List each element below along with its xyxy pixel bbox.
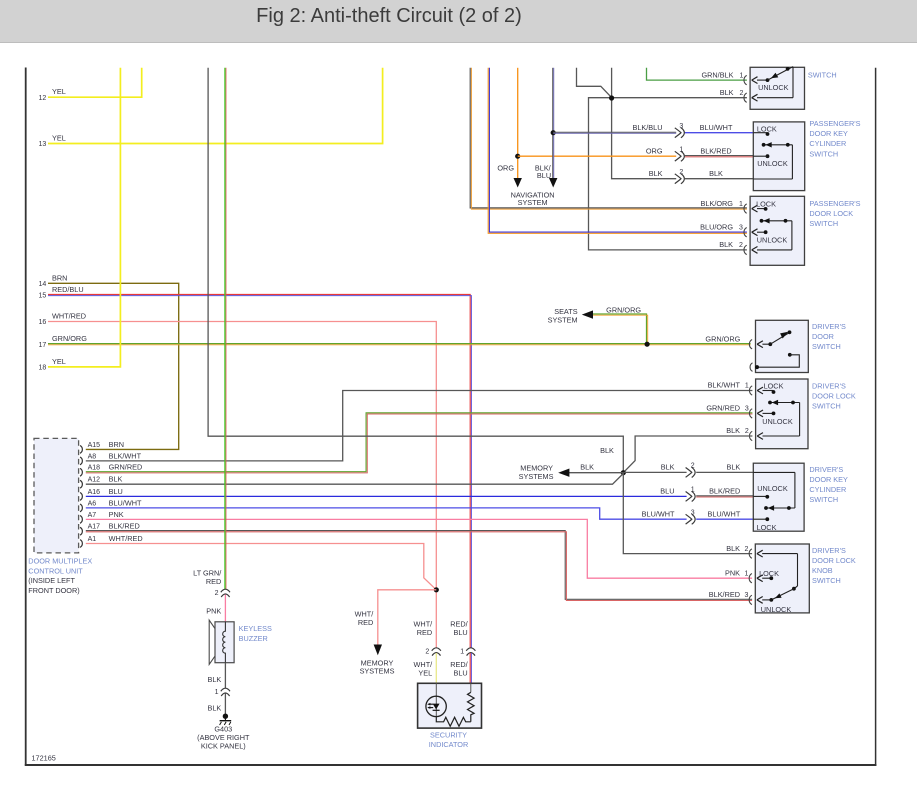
svg-text:YEL: YEL	[52, 87, 66, 96]
wire ORG branch to connector	[518, 155, 677, 157]
pin A8	[80, 451, 142, 465]
wire BLK connector to driver key cylinder switch	[696, 471, 753, 473]
svg-text:DRIVER'S: DRIVER'S	[812, 546, 846, 555]
wire BLK/RED connector to driver key cylinder switch	[696, 496, 753, 497]
switch box PASSENGER'S DOOR KEY CYLINDER SWITCH	[753, 122, 804, 191]
svg-text:SYSTEM: SYSTEM	[518, 198, 548, 207]
wire BLK/ORG to passenger door lock switch pin 1	[470, 68, 747, 209]
svg-text:BLK/WHT: BLK/WHT	[109, 451, 142, 460]
connector driver lock pin 1	[749, 386, 773, 395]
label BLK/ORG pin 1	[701, 199, 743, 208]
svg-text:YEL: YEL	[52, 357, 66, 366]
svg-text:DOOR LOCK: DOOR LOCK	[812, 556, 856, 565]
svg-text:SWITCH: SWITCH	[809, 149, 838, 158]
svg-text:BLK: BLK	[726, 544, 740, 553]
pin A15	[80, 440, 124, 454]
svg-text:2: 2	[679, 169, 683, 176]
label PNK pin 1 knob	[725, 568, 748, 577]
label BLK above node	[600, 446, 614, 455]
label BLK buzzer	[208, 675, 222, 684]
connector vertical 1 RED/BLU	[460, 648, 475, 656]
frame left border	[25, 68, 27, 766]
wire BLU/ORG to passenger door lock switch pin 3	[488, 68, 747, 234]
label PASSENGER'S DOOR KEY CYLINDER SWITCH	[809, 119, 860, 158]
svg-text:BLK/RED: BLK/RED	[700, 146, 731, 155]
label GRN/ORG seats	[606, 305, 641, 314]
label BLK ground	[208, 704, 222, 713]
wire BLU A16 to driver key cylinder pin 1	[86, 495, 687, 497]
svg-text:GRN/RED: GRN/RED	[706, 404, 740, 413]
svg-text:BLK: BLK	[649, 169, 663, 178]
svg-text:SEATS: SEATS	[554, 307, 578, 316]
wire 17 GRN/ORG	[48, 344, 751, 345]
switch box SWITCH (top)	[750, 67, 804, 109]
label BLK pin 2 row driver key cyl	[661, 463, 741, 472]
wire BLK node to SWITCH pin 2	[612, 97, 747, 99]
svg-text:BLU: BLU	[537, 171, 551, 180]
svg-text:KICK PANEL): KICK PANEL)	[201, 741, 246, 750]
svg-text:KNOB: KNOB	[812, 566, 833, 575]
svg-text:BLU/WHT: BLU/WHT	[707, 509, 740, 518]
switch SWITCH internals	[758, 67, 793, 98]
node BLK junction	[609, 95, 614, 100]
svg-text:BLK: BLK	[719, 240, 733, 249]
svg-text:15: 15	[39, 293, 47, 300]
wire BLK driver lock pin 2 to node	[624, 436, 752, 472]
svg-text:GRN/ORG: GRN/ORG	[606, 305, 641, 314]
svg-text:ORG: ORG	[646, 146, 663, 155]
label BLK pin 2 driver lock	[726, 426, 749, 435]
svg-text:PNK: PNK	[109, 510, 124, 519]
svg-text:3: 3	[745, 406, 749, 413]
svg-text:3: 3	[679, 123, 683, 130]
wire BLK/RED connector to passenger key cylinder switch	[685, 156, 754, 157]
switch driver key cylinder internals	[753, 472, 795, 532]
label BLU pin 1 row	[660, 487, 740, 496]
svg-text:INDICATOR: INDICATOR	[429, 740, 468, 749]
svg-text:SWITCH: SWITCH	[812, 402, 841, 411]
svg-text:A6: A6	[88, 500, 97, 507]
wire BLK node to driver key cylinder pin 2	[623, 471, 686, 473]
label PASSENGER'S DOOR LOCK SWITCH	[809, 199, 860, 228]
wire RED/BLU to security indicator	[470, 653, 471, 683]
frame bottom border	[25, 764, 877, 766]
svg-text:CYLINDER: CYLINDER	[809, 139, 846, 148]
svg-text:BLK: BLK	[208, 704, 222, 713]
svg-text:RED: RED	[206, 577, 221, 586]
svg-text:1: 1	[691, 487, 695, 494]
svg-text:BLK/RED: BLK/RED	[709, 487, 740, 496]
connector inline pin 2 BLK driver key cyl	[686, 463, 696, 478]
switch box DRIVER'S DOOR KEY CYLINDER SWITCH	[753, 463, 804, 531]
switch box PASSENGER'S DOOR LOCK SWITCH	[750, 196, 804, 265]
label SWITCH	[808, 71, 837, 80]
wire WHT/RED A1 to node	[86, 544, 437, 590]
svg-text:BLK: BLK	[208, 675, 222, 684]
label BLK/BLU row	[632, 123, 732, 132]
svg-text:3: 3	[744, 592, 748, 599]
svg-text:BLK: BLK	[720, 88, 734, 97]
label DRIVER'S DOOR SWITCH	[812, 322, 846, 351]
svg-text:UNLOCK: UNLOCK	[761, 605, 792, 614]
svg-text:ORG: ORG	[497, 163, 514, 172]
svg-text:PNK: PNK	[725, 568, 740, 577]
control unit DOOR MULTIPLEX box	[34, 438, 79, 553]
wire LT GRN/RED to keyless buzzer	[225, 68, 226, 590]
node WHT/RED junction	[434, 587, 439, 592]
svg-text:SWITCH: SWITCH	[808, 71, 837, 80]
svg-text:DOOR LOCK: DOOR LOCK	[809, 209, 853, 218]
wire GRN/BLK to SWITCH pin 1	[647, 68, 747, 80]
switch box DRIVER'S DOOR SWITCH	[756, 320, 809, 372]
svg-text:UNLOCK: UNLOCK	[757, 484, 788, 493]
svg-text:BLU/WHT: BLU/WHT	[109, 498, 142, 507]
label BLK/RED pin 3 knob	[709, 590, 749, 599]
svg-text:GRN/BLK: GRN/BLK	[701, 70, 733, 79]
pin 12 label	[39, 87, 66, 102]
connector knob pin 2	[749, 549, 797, 558]
switch passenger key cylinder internals	[753, 124, 792, 179]
svg-text:WHT/RED: WHT/RED	[52, 312, 86, 321]
wire BLK connector to passenger key cylinder switch	[685, 178, 754, 180]
wire 13 YEL	[48, 68, 383, 144]
svg-text:LOCK: LOCK	[757, 124, 777, 133]
label NAVIGATION SYSTEM	[511, 190, 555, 207]
label ORG row	[646, 146, 732, 155]
svg-text:BLU/WHT: BLU/WHT	[700, 123, 733, 132]
svg-text:1: 1	[744, 570, 748, 577]
svg-text:BLK: BLK	[600, 446, 614, 455]
svg-text:SECURITY: SECURITY	[430, 730, 467, 739]
svg-text:DRIVER'S: DRIVER'S	[812, 322, 846, 331]
frame right border	[875, 68, 877, 766]
label BLK pin 2 knob	[726, 544, 748, 553]
pin A18	[80, 463, 142, 477]
switch box DRIVER'S DOOR LOCK KNOB SWITCH	[755, 544, 809, 613]
svg-text:13: 13	[39, 141, 47, 148]
svg-text:BLK: BLK	[109, 475, 123, 484]
svg-text:1: 1	[215, 689, 219, 696]
svg-text:FRONT DOOR): FRONT DOOR)	[28, 586, 79, 595]
svg-text:LOCK: LOCK	[764, 381, 784, 390]
svg-text:A17: A17	[88, 524, 101, 531]
svg-text:2: 2	[215, 590, 219, 597]
connector SWITCH pin 1	[744, 75, 768, 84]
wire BLK from top to node	[208, 68, 623, 471]
node GRN/ORG junction	[645, 342, 650, 347]
wire BLK/RED A17 to knob switch pin 3	[86, 531, 752, 601]
connector inline pin 1 BLU-BLK/RED	[686, 487, 696, 502]
pin A7	[80, 510, 124, 524]
svg-text:BLU: BLU	[453, 668, 467, 677]
svg-text:A12: A12	[88, 477, 101, 484]
pin A16	[80, 487, 123, 501]
label MEMORY SYSTEMS bottom	[360, 658, 395, 675]
wire BLU/WHT A6 to driver key cylinder pin 3	[86, 508, 687, 519]
svg-text:YEL: YEL	[418, 668, 432, 677]
pin A1	[80, 534, 143, 548]
label DOOR MULTIPLEX CONTROL UNIT	[28, 557, 92, 595]
svg-text:BLK/BLU: BLK/BLU	[632, 123, 662, 132]
label BLK/BLU nav	[535, 163, 552, 180]
switch driver lock internals	[762, 381, 799, 436]
wire BLK buzzer down	[224, 663, 226, 689]
svg-text:SYSTEM: SYSTEM	[548, 316, 578, 325]
wire GRN/RED A18 to driver door lock switch pin 3	[86, 413, 753, 473]
svg-text:A8: A8	[88, 453, 97, 460]
wire BLK node to knob switch pin 2	[623, 473, 752, 554]
svg-text:PASSENGER'S: PASSENGER'S	[809, 119, 860, 128]
svg-text:2: 2	[740, 90, 744, 97]
connector passenger lock pin 3	[744, 228, 766, 237]
wire BLK to ground	[224, 693, 226, 714]
svg-text:2: 2	[425, 649, 429, 656]
svg-text:1: 1	[745, 383, 749, 390]
connector knob pin 1	[749, 574, 771, 583]
wire BLU/WHT connector to passenger key cylinder switch	[685, 132, 754, 134]
svg-text:BLK: BLK	[726, 426, 740, 435]
svg-text:RED: RED	[358, 618, 373, 627]
svg-text:12: 12	[39, 95, 47, 102]
connector knob pin 3	[749, 595, 771, 604]
svg-text:WHT/RED: WHT/RED	[109, 534, 143, 543]
wire BLK/BLU vertical to navigation system	[549, 68, 557, 188]
svg-text:MEMORY: MEMORY	[520, 463, 553, 472]
switch driver door internals	[750, 330, 799, 371]
pin A6	[80, 498, 142, 512]
svg-text:GRN/ORG: GRN/ORG	[52, 334, 87, 343]
label G403	[197, 725, 250, 751]
label BLK pin 2	[720, 88, 744, 97]
wire PNK A7 to knob switch pin 1	[86, 519, 752, 578]
label BLK/WHT pin 1	[708, 381, 749, 390]
ground G403	[220, 714, 232, 726]
wire 14 BRN to pin A15	[48, 283, 179, 449]
svg-text:SYSTEMS: SYSTEMS	[519, 472, 554, 481]
label BLU/WHT pin 3 row	[642, 509, 741, 518]
connector inline pin 3 BLK/BLU-BLU/WHT	[675, 123, 685, 138]
node BLK/BLU junction	[551, 130, 556, 135]
svg-text:BLK/WHT: BLK/WHT	[708, 381, 741, 390]
svg-text:BLK: BLK	[709, 169, 723, 178]
svg-text:BUZZER: BUZZER	[239, 634, 268, 643]
pin 13 label	[39, 134, 66, 149]
svg-text:172165: 172165	[32, 753, 56, 762]
svg-text:SYSTEMS: SYSTEMS	[360, 667, 395, 676]
svg-text:GRN/RED: GRN/RED	[109, 463, 143, 472]
svg-text:2: 2	[739, 242, 743, 249]
svg-text:UNLOCK: UNLOCK	[757, 159, 788, 168]
wire BLK node to memory systems arrow	[558, 469, 623, 477]
svg-text:BLK/ORG: BLK/ORG	[701, 199, 734, 208]
label GRN/RED pin 3	[706, 404, 749, 413]
connector inline pin 3 BLU/WHT	[686, 509, 696, 524]
label PNK buzzer	[206, 607, 221, 616]
label DRIVER'S DOOR LOCK KNOB SWITCH	[812, 546, 856, 585]
label KEYLESS BUZZER	[239, 624, 272, 643]
svg-text:BLU/WHT: BLU/WHT	[642, 509, 675, 518]
svg-text:DOOR: DOOR	[812, 332, 834, 341]
wire BLU/WHT connector to driver key cylinder switch	[696, 518, 753, 520]
pin A12	[80, 475, 123, 489]
svg-text:BRN: BRN	[52, 273, 67, 282]
svg-text:16: 16	[39, 319, 47, 326]
wire BLK/BLU branch to connector	[553, 132, 676, 133]
pin 18 label	[39, 357, 66, 372]
wire 16 WHT/RED	[48, 322, 436, 649]
figure number 172165	[32, 753, 56, 762]
svg-text:2: 2	[691, 463, 695, 470]
label BLU/ORG pin 3	[700, 222, 743, 231]
svg-text:17: 17	[39, 342, 47, 349]
svg-text:3: 3	[691, 509, 695, 516]
component box SECURITY INDICATOR	[418, 683, 482, 728]
svg-text:A15: A15	[88, 442, 101, 449]
connector driver door switch	[749, 340, 770, 349]
switch box DRIVER'S DOOR LOCK SWITCH	[756, 379, 808, 449]
wire PNK to buzzer	[224, 595, 226, 622]
pin 14 label	[39, 273, 68, 288]
wire 12 YEL	[48, 68, 142, 97]
svg-text:CONTROL UNIT: CONTROL UNIT	[28, 566, 83, 575]
label WHT/YEL below connector	[414, 660, 434, 677]
svg-text:BLK: BLK	[727, 463, 741, 472]
svg-text:BLU: BLU	[109, 487, 123, 496]
component keyless buzzer	[209, 620, 234, 664]
svg-text:18: 18	[39, 365, 47, 372]
wire WHT/RED node to memory systems	[374, 590, 437, 655]
svg-text:BLU/ORG: BLU/ORG	[700, 222, 733, 231]
svg-text:DOOR LOCK: DOOR LOCK	[812, 392, 856, 401]
svg-text:BLU: BLU	[453, 628, 467, 637]
svg-text:BLK: BLK	[661, 463, 675, 472]
connector inline pin 1 ORG-BLK/RED	[675, 146, 685, 161]
svg-text:PASSENGER'S: PASSENGER'S	[809, 199, 860, 208]
label BLK pin 2 passenger lock	[719, 240, 743, 249]
svg-text:1: 1	[679, 146, 683, 153]
svg-text:Fig 2: Anti-theft Circuit (2 o: Fig 2: Anti-theft Circuit (2 of 2)	[256, 5, 522, 27]
connector driver lock pin 2	[749, 431, 799, 440]
svg-text:(INSIDE LEFT: (INSIDE LEFT	[28, 576, 75, 585]
svg-text:YEL: YEL	[52, 134, 66, 143]
svg-text:A18: A18	[88, 465, 101, 472]
svg-text:RED/BLU: RED/BLU	[52, 285, 84, 294]
label DRIVER'S DOOR KEY CYLINDER SWITCH	[809, 465, 848, 504]
title bar	[0, 0, 917, 43]
connector vertical 2 buzzer	[215, 589, 230, 597]
label RED/BLU above connector 1	[450, 619, 468, 637]
svg-text:BLU: BLU	[660, 487, 674, 496]
label ORG nav	[497, 163, 514, 172]
pin A17	[80, 522, 140, 536]
wire GRN/ORG branch to seats system	[582, 310, 648, 344]
svg-text:GRN/ORG: GRN/ORG	[705, 334, 740, 343]
label MEMORY SYSTEMS mid	[519, 463, 554, 481]
svg-text:BLK/RED: BLK/RED	[709, 590, 740, 599]
connector passenger lock pin 2	[744, 245, 792, 254]
svg-text:PNK: PNK	[206, 607, 221, 616]
switch knob internals	[759, 554, 797, 614]
svg-text:KEYLESS: KEYLESS	[239, 624, 272, 633]
connector vertical 1 buzzer ground	[215, 688, 230, 696]
svg-text:A7: A7	[88, 512, 97, 519]
resistor security indicator	[436, 683, 474, 726]
label GRN/BLK pin 1	[701, 70, 743, 79]
label RED/BLU below connector	[450, 660, 468, 677]
label DRIVER'S DOOR LOCK SWITCH	[812, 382, 856, 411]
connector SWITCH pin 2	[744, 93, 793, 102]
wire BLK vertical to passenger key cylinder pin 2	[612, 68, 677, 179]
svg-text:UNLOCK: UNLOCK	[758, 83, 789, 92]
svg-text:RED: RED	[417, 628, 432, 637]
svg-text:UNLOCK: UNLOCK	[757, 235, 788, 244]
svg-text:BRN: BRN	[109, 440, 124, 449]
svg-text:SWITCH: SWITCH	[809, 495, 838, 504]
svg-text:DOOR KEY: DOOR KEY	[809, 129, 848, 138]
pin 17 label	[39, 334, 88, 349]
wire BLK node to passenger door lock switch pin 2	[589, 98, 747, 250]
wire BLK/WHT A8 to driver door lock switch pin 1	[86, 391, 753, 461]
switch passenger lock internals	[756, 200, 792, 250]
node ORG junction	[515, 154, 520, 159]
node BLK memory junction	[621, 470, 626, 475]
label WHT/RED memory	[355, 610, 375, 628]
wire 18 YEL	[48, 68, 120, 367]
wire BLK vertical jog into node	[577, 68, 612, 98]
svg-text:LOCK: LOCK	[759, 569, 779, 578]
wire BLK A12 to memory node	[86, 474, 624, 485]
svg-text:UNLOCK: UNLOCK	[762, 417, 793, 426]
connector passenger lock pin 1	[744, 204, 766, 213]
wire WHT/YEL to security indicator	[435, 653, 437, 683]
svg-text:LOCK: LOCK	[757, 523, 777, 532]
svg-text:2: 2	[744, 546, 748, 553]
LED lamp security indicator	[426, 683, 446, 716]
label SECURITY INDICATOR	[429, 730, 468, 749]
svg-text:2: 2	[745, 428, 749, 435]
label LT GRN/RED	[193, 568, 222, 586]
svg-text:3: 3	[739, 224, 743, 231]
label BLK memory	[580, 462, 594, 471]
connector vertical 2 WHT/RED-WHT/YEL	[425, 648, 441, 656]
connector driver lock pin 3	[749, 409, 773, 418]
svg-text:14: 14	[39, 281, 47, 288]
svg-text:A16: A16	[88, 489, 101, 496]
svg-text:1: 1	[740, 72, 744, 79]
svg-text:DOOR KEY: DOOR KEY	[809, 475, 848, 484]
svg-text:BLK/RED: BLK/RED	[109, 522, 140, 531]
label SEATS SYSTEM	[548, 307, 578, 325]
svg-text:DOOR MULTIPLEX: DOOR MULTIPLEX	[28, 557, 92, 566]
svg-text:SWITCH: SWITCH	[812, 342, 841, 351]
label GRN/ORG driver door switch	[705, 334, 740, 343]
svg-text:1: 1	[460, 649, 464, 656]
pin 16 label	[39, 312, 87, 327]
svg-text:CYLINDER: CYLINDER	[809, 485, 846, 494]
svg-text:A1: A1	[88, 536, 97, 543]
svg-text:DRIVER'S: DRIVER'S	[809, 465, 843, 474]
wire ORG vertical to navigation system	[514, 68, 522, 188]
label BLK row passenger key cylinder	[649, 169, 723, 178]
connector inline pin 2 BLK-BLK	[675, 169, 685, 184]
svg-text:SWITCH: SWITCH	[809, 219, 838, 228]
svg-text:DRIVER'S: DRIVER'S	[812, 382, 846, 391]
svg-text:BLK: BLK	[580, 462, 594, 471]
pin 15 label	[39, 285, 84, 300]
label WHT/RED above connector 2	[414, 619, 434, 637]
wire 15 RED/BLU	[48, 294, 471, 648]
svg-text:1: 1	[739, 201, 743, 208]
